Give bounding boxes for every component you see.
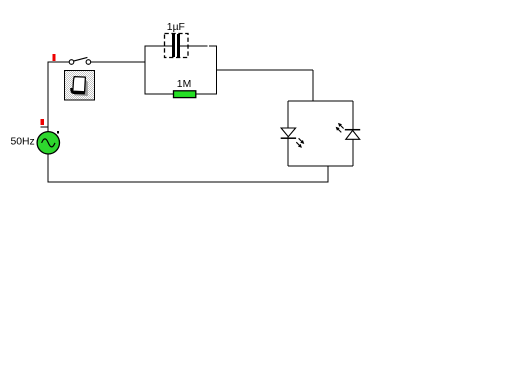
wire diode box right edge bbox=[352, 101, 354, 166]
node dot near source bbox=[57, 131, 59, 133]
wire parallel box bottom right segment bbox=[196, 93, 218, 95]
wire parallel box left vertical bbox=[144, 46, 146, 94]
wire top horizontal to switch bbox=[48, 61, 70, 63]
red break marker at switch bbox=[52, 54, 55, 61]
wire parallel box top right segment bbox=[180, 45, 208, 47]
wire diode box bottom edge bbox=[288, 165, 353, 167]
LED D1 (left, pointing down) bbox=[281, 128, 296, 138]
rocker cap bbox=[73, 77, 86, 92]
rocker shadow bbox=[74, 79, 88, 96]
svg-text:1M: 1M bbox=[177, 79, 191, 90]
LED D2 arrows bbox=[337, 124, 344, 133]
switch SW1 contacts bbox=[69, 60, 91, 65]
wire box1 to diode box horizontal bbox=[217, 69, 314, 71]
resistor R1 bbox=[174, 91, 196, 98]
wire switch to parallel box bbox=[91, 61, 146, 63]
switch SW1 lever bbox=[74, 57, 87, 61]
wire bbox=[41, 46, 354, 182]
svg-text:1µF: 1µF bbox=[167, 22, 185, 33]
capacitor C1 selection dashed box bbox=[165, 34, 189, 58]
wire parallel box right vertical bbox=[216, 46, 218, 94]
red break marker at source bbox=[41, 119, 44, 125]
wire source bottom vertical bbox=[47, 154, 49, 183]
LED D1 arrows bbox=[296, 138, 303, 147]
LED D2 (right, pointing up) bbox=[345, 130, 360, 140]
switch button icon box bbox=[65, 71, 95, 101]
wire diode box bottom drop bbox=[327, 166, 329, 182]
rocker base dark bbox=[71, 88, 85, 93]
AC source V1 bbox=[37, 132, 59, 154]
wire parallel box top left segment bbox=[145, 45, 172, 47]
wire left vertical upper (source top to corner) bbox=[47, 62, 49, 133]
wire red-break stub at source bbox=[41, 126, 49, 128]
wire down into diode box bbox=[312, 70, 314, 101]
wire diode box left edge bbox=[287, 101, 289, 166]
svg-text:50Hz: 50Hz bbox=[11, 137, 35, 148]
wire parallel box top right segment after gap bbox=[209, 45, 217, 47]
wire diode box top edge bbox=[288, 100, 353, 102]
wire parallel box bottom left segment bbox=[145, 93, 174, 95]
wire bottom rail bbox=[48, 181, 329, 183]
capacitor C1 plates bbox=[172, 34, 180, 57]
